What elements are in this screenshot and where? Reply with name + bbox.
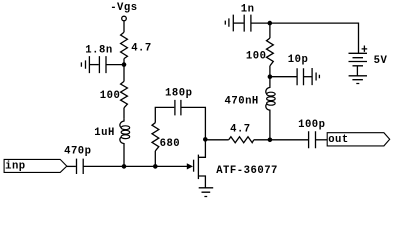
wire C1n to rail node [251,22,270,24]
wire R4.7 to supply node [254,139,270,141]
ground (battery) [349,76,367,84]
resistor R 680 [152,123,180,151]
svg-text:1.8n: 1.8n [85,44,112,56]
svg-text:180p: 180p [165,88,192,100]
resistor R 4.7 (gate bias) [121,32,152,58]
wire R100 to top rail node [269,23,271,38]
wire 680 branch up [154,151,156,167]
capacitor C 1n [241,4,255,32]
resistor R 100 (gate) [100,81,128,107]
wire L470nH to 10p node [269,77,271,85]
wire up to L470nH [269,113,271,140]
transistor Q1 ATF-36077 [187,140,278,188]
wire C10p to ground [304,76,313,78]
wire inp to C470p [67,165,76,167]
wire supply node to R100 top [269,66,271,77]
wire gate node to 680 node [124,165,155,167]
svg-text:100: 100 [246,51,267,63]
wire ground to C1n [233,22,243,24]
resistor R 100 (supply) [246,38,273,66]
svg-text:5V: 5V [374,55,388,67]
capacitor C 470p [64,146,91,174]
capacitor C 180p [165,88,192,116]
node top rail junction [268,21,273,26]
wire 680 node to FET gate [155,165,187,167]
svg-text:4.7: 4.7 [230,123,251,135]
svg-text:680: 680 [160,138,181,150]
node decoupling junction [268,74,273,79]
wire ground to C1.8n [89,64,98,66]
wire drain node to R4.7 out [205,139,228,141]
node output junction [268,138,273,143]
node -Vgs terminal [110,2,137,21]
wire node A to R100 [123,65,125,82]
ground (left, sideways) for C 1.8n [81,56,89,73]
svg-text:10p: 10p [288,54,309,66]
node 680 junction [153,164,158,169]
wire terminal to R 4.7 [123,21,125,32]
wire R100 to L1uH [123,108,125,119]
svg-text:1n: 1n [241,4,255,16]
svg-text:inp: inp [5,161,26,173]
capacitor C 1.8n [85,44,112,73]
inductor L 1uH [94,119,129,146]
inductor L 470nH [225,85,276,113]
wire L1uH to gate line [123,146,125,166]
wire top rail to battery [270,23,359,53]
node A junction [122,62,127,67]
resistor R 4.7 (output) [229,123,254,142]
svg-text:ATF-36077: ATF-36077 [216,165,278,177]
svg-text:4.7: 4.7 [131,43,152,55]
wire output node to C100p [270,139,308,141]
svg-text:470p: 470p [64,146,91,158]
svg-text:1uH: 1uH [94,127,115,139]
capacitor C 100p [298,119,325,148]
wire C1.8n to node A [106,64,124,66]
wire C470p to gate node [83,165,124,167]
port out [327,133,390,146]
node drain junction [203,137,208,142]
ground (right, sideways) for C10p [312,68,319,85]
wire R4.7 to node A [123,59,125,65]
svg-text:-Vgs: -Vgs [110,2,137,14]
ground (left, sideways) for C 1n [225,15,233,32]
wire 180p to drain corner [181,107,206,139]
wire C100p to out port [316,139,328,141]
svg-text:100: 100 [100,90,121,102]
wire node to C10p [270,76,297,78]
ground (FET source) [199,188,214,197]
svg-text:470nH: 470nH [225,96,259,108]
wire 680 up to 180p corner [155,107,174,122]
port inp [4,159,67,172]
svg-text:100p: 100p [298,119,325,131]
battery V1 5V [349,46,388,76]
node gate-bias junction [122,164,127,169]
capacitor C 10p [288,54,309,85]
svg-text:out: out [328,134,349,146]
